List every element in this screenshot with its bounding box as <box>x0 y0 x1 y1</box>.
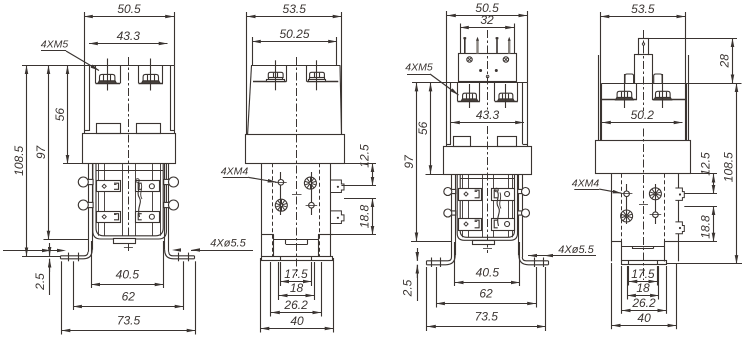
view1 center line <box>128 57 130 254</box>
view3 dot right <box>495 69 498 72</box>
view1 dim 62 <box>73 306 183 308</box>
view4 flange band <box>596 141 691 174</box>
view3 body top <box>447 82 527 84</box>
view2 nut 1 <box>267 72 285 81</box>
view4 dim 26.2 <box>622 310 666 312</box>
view1 terminal centerline 1 <box>107 59 109 91</box>
view3 dim 56 <box>430 83 432 174</box>
view4 top post thin <box>639 39 649 55</box>
view3 ext top-left <box>412 82 447 84</box>
view2 screw cross small TL <box>275 180 287 186</box>
view4 ext 40 <box>611 263 613 329</box>
svg-text:32: 32 <box>480 13 494 27</box>
view4 ext 18 <box>627 266 629 300</box>
view4 ext 28 bottom <box>686 83 741 85</box>
view4 foot step left <box>611 241 621 243</box>
view1 dim 73.5 <box>62 330 196 332</box>
view4 bottom plate <box>622 261 667 265</box>
svg-text:17.5: 17.5 <box>284 267 308 281</box>
view2 ext 53.5 <box>246 12 248 134</box>
view1 ext 62 <box>73 261 75 310</box>
view4 dim 40 <box>612 325 677 327</box>
view1 side screw TR <box>164 177 179 187</box>
svg-text:53.5: 53.5 <box>283 2 307 16</box>
svg-text:40: 40 <box>637 311 651 325</box>
view3 center line <box>487 30 489 110</box>
svg-text:17.5: 17.5 <box>631 267 655 281</box>
view1 terminal nut 1 <box>98 74 117 83</box>
view4 lug side 1 <box>675 188 684 200</box>
view3 coil lines <box>462 174 464 237</box>
view2 block bottom <box>274 239 318 241</box>
view3 dim 50.5 <box>447 15 527 17</box>
view3 ext 50.5 <box>446 11 448 83</box>
view3 ext band-bottom <box>426 174 444 176</box>
view2 bracket verticals <box>261 163 263 256</box>
view3 pin 3 <box>496 37 498 53</box>
view3 nut 1 <box>461 93 478 101</box>
svg-text:73.5: 73.5 <box>475 310 499 324</box>
view4 knurled screw TR <box>649 188 661 200</box>
view4 block bottom <box>621 246 664 248</box>
view3 side screw TR <box>518 188 530 196</box>
svg-text:26.2: 26.2 <box>283 298 308 312</box>
view2 ext 50.25 <box>252 37 254 65</box>
view3 foot slots right <box>534 258 536 268</box>
view2 leader 4XM4 <box>248 177 277 182</box>
svg-text:28: 28 <box>718 54 732 69</box>
view1 ext 97 <box>44 239 89 241</box>
svg-text:18: 18 <box>290 281 304 295</box>
view4 foot step right <box>664 241 678 243</box>
view4 terminal centerlines <box>624 74 626 108</box>
view2 dim 12.5 <box>372 163 374 185</box>
svg-text:4XM5: 4XM5 <box>405 62 433 74</box>
view3 dim 40.5 <box>455 282 520 284</box>
view3 xscrew right <box>503 57 508 62</box>
view4 screw centerlines <box>626 184 628 224</box>
svg-text:40: 40 <box>290 314 304 328</box>
view4 dim 12.5 <box>713 174 715 194</box>
svg-text:40.5: 40.5 <box>116 268 140 282</box>
view3 pocket 2 <box>494 83 496 102</box>
view1 terminal pocket 2 <box>138 65 140 83</box>
svg-text:62: 62 <box>479 287 493 301</box>
view2 body sides <box>248 65 252 134</box>
view3 lug BR <box>492 219 515 231</box>
view3 lug TL <box>459 189 482 201</box>
view4 dim 108.5 <box>736 83 738 264</box>
view1 bracket right <box>168 164 170 252</box>
svg-text:108.5: 108.5 <box>12 145 26 175</box>
view2 body top <box>251 65 340 67</box>
svg-text:26.2: 26.2 <box>631 296 656 310</box>
view4 leader 4XM4 <box>599 189 621 193</box>
view3 ext 40.5 <box>454 242 456 286</box>
view2 foot step right <box>318 234 333 236</box>
view3 xscrew left <box>467 57 472 62</box>
view2 dim 50.25 <box>252 41 337 43</box>
view3 foot slots left <box>431 258 433 268</box>
svg-text:62: 62 <box>122 290 136 304</box>
view1 dim 40.5 <box>91 284 163 286</box>
view1 ext 108.5 <box>22 256 61 258</box>
view3 connector block <box>459 54 517 82</box>
view4 ext 17.5 <box>628 266 630 286</box>
view4 pocket line <box>602 99 637 101</box>
svg-text:12.5: 12.5 <box>699 152 713 176</box>
view3 side screw BR <box>518 209 530 217</box>
view1 slot leader left <box>3 250 58 252</box>
view1 ext band-bottom <box>63 163 82 165</box>
view1 side screw BR <box>164 200 179 210</box>
view1 body outline <box>84 65 174 67</box>
view2 bottom plate <box>262 257 333 261</box>
view1 lug BL <box>97 212 121 223</box>
view3 side screw BL <box>444 209 456 217</box>
view1 dim 43.3 <box>89 43 168 45</box>
view4 nut 2 <box>654 91 672 100</box>
view1 lug TL <box>97 181 121 192</box>
svg-text:56: 56 <box>416 121 430 135</box>
view4 body top <box>602 83 686 85</box>
view1 dim 108.5 <box>26 65 28 256</box>
svg-text:43.3: 43.3 <box>476 108 500 122</box>
view1 terminal centerline 2 <box>150 59 152 91</box>
view1 flange band <box>83 134 176 164</box>
svg-text:97: 97 <box>402 154 416 169</box>
view4 dim 18 <box>627 295 659 297</box>
view2 ext 17.5 <box>280 262 282 286</box>
view2 dim 40 <box>261 328 334 330</box>
view3 dim 2.5 <box>417 248 419 261</box>
view4 center line <box>643 30 645 111</box>
view4 dim 28 <box>732 38 734 83</box>
view1 bottom tab <box>114 239 136 244</box>
view1 terminal nut 2 <box>142 74 161 83</box>
view4 side post right <box>654 74 662 83</box>
view1 coil lines <box>98 164 100 236</box>
view2 center line <box>296 57 298 276</box>
view1 bracket left <box>88 164 90 252</box>
view3 bracket right <box>522 174 524 257</box>
svg-text:56: 56 <box>53 108 67 122</box>
view3 pin 4 <box>508 41 510 54</box>
view2 screw centerlines <box>280 172 282 215</box>
view4 hidden bracket lines <box>621 174 623 261</box>
view3 bottom tab <box>473 241 495 245</box>
svg-text:40.5: 40.5 <box>476 266 500 280</box>
svg-text:97: 97 <box>34 144 48 159</box>
view3 ext 32 <box>460 24 462 54</box>
view3 bracket left <box>451 174 453 257</box>
view3 dot left <box>479 69 482 72</box>
view4 knurled screw BL <box>621 210 633 222</box>
view3 pin 1 <box>464 37 466 53</box>
view2 block tab <box>285 239 287 244</box>
view1 ext top-left <box>22 65 84 67</box>
view3 center hole <box>486 75 489 78</box>
view1 ext 40.5 <box>91 241 93 288</box>
view1 dim 2.5 <box>49 243 51 256</box>
view3 side screw TL <box>444 188 456 196</box>
view1 lug BR <box>136 212 160 223</box>
view1 foot slots left <box>68 253 70 262</box>
view4 ext 28 top <box>648 38 737 40</box>
view4 dim 18.8 <box>713 206 715 241</box>
view3 body sides <box>446 83 448 147</box>
view1 terminal pocket 1 <box>95 65 97 83</box>
view4 dim 17.5 <box>629 281 658 283</box>
view3 window left <box>454 137 471 147</box>
svg-text:43.3: 43.3 <box>117 29 141 43</box>
view4 top post wide <box>634 54 636 83</box>
view1 dim 50.5 <box>84 16 174 18</box>
view3 yoke frame <box>457 174 517 240</box>
view1 ext 73.5 <box>61 261 63 334</box>
view3 dim 97 <box>416 83 418 242</box>
view1 window right <box>137 124 161 134</box>
svg-text:18.8: 18.8 <box>358 204 372 228</box>
view2 flange band <box>246 135 345 164</box>
view4 ext 18.8 <box>684 206 717 208</box>
view3 ext 97 <box>411 241 452 243</box>
svg-text:108.5: 108.5 <box>722 152 736 182</box>
view3 flange band <box>444 147 532 175</box>
view2 ext 40 <box>260 258 262 333</box>
view3 body inner walls <box>450 83 452 144</box>
svg-text:50.2: 50.2 <box>631 108 655 122</box>
view4 nut 1 <box>616 91 634 100</box>
view2 dim 53.5 <box>247 16 342 18</box>
view4 screw cross small BR <box>650 212 662 218</box>
view4 dim 53.5 <box>601 16 686 18</box>
view3 slot leader right (4X dia5.5) <box>528 255 596 257</box>
view3 leader 4XM5 <box>430 74 459 95</box>
view1 slot leader right (4X dia 5.5) <box>191 250 253 252</box>
view3 dim 32 <box>460 27 514 29</box>
view2 block sides <box>273 235 275 257</box>
view3 nut 2 <box>498 93 515 101</box>
view2 terminal centerlines <box>275 60 277 90</box>
svg-text:4XM5: 4XM5 <box>41 39 69 51</box>
svg-text:4Xø5.5: 4Xø5.5 <box>210 238 246 250</box>
view1 dim 56 <box>67 65 69 163</box>
view2 ext 18.8 <box>344 198 376 200</box>
view4 ext 12.5 <box>691 173 717 175</box>
svg-text:73.5: 73.5 <box>117 314 141 328</box>
view2 ext 18 <box>278 262 280 300</box>
view2 lug side 2 <box>331 211 344 224</box>
view3 terminal centerlines <box>469 84 471 108</box>
svg-text:2.5: 2.5 <box>33 273 47 291</box>
view4 body sides <box>601 83 603 140</box>
view1 moving spring <box>136 179 142 217</box>
view1 lug TR <box>136 181 160 192</box>
view3 lug TR <box>492 189 515 201</box>
view1 side screw TL <box>78 177 93 187</box>
svg-text:2.5: 2.5 <box>401 279 415 297</box>
view1 dim 97 <box>48 65 50 239</box>
view3 pocket 1 <box>457 83 459 102</box>
view4 ext 53.5 <box>600 12 602 140</box>
view3 ext 62 <box>436 267 438 308</box>
view4 plate tabs <box>628 260 630 264</box>
view4 dim 50.2 <box>602 122 683 124</box>
view2 nut 2 <box>309 72 326 81</box>
view3 dim 43.3 <box>451 122 524 124</box>
view3 dim 73.5 <box>427 326 546 328</box>
view2 hidden bracket lines <box>272 163 274 256</box>
view2 ext 12.5 <box>345 163 376 165</box>
svg-text:53.5: 53.5 <box>631 2 655 16</box>
view4 ext 26.2 <box>621 266 623 314</box>
view3 yoke top line <box>460 178 514 180</box>
view2 knurled screw TR <box>304 177 316 189</box>
view2 foot step left <box>261 234 274 236</box>
view2 ext 26.2 <box>270 262 272 317</box>
svg-text:4XM4: 4XM4 <box>221 166 249 178</box>
view4 lug side 2 <box>675 222 684 234</box>
view2 dim 18.8 <box>372 198 374 234</box>
view1 side screw BL <box>78 200 93 210</box>
view3 pin 2 <box>476 41 478 54</box>
svg-text:4XM4: 4XM4 <box>572 177 600 189</box>
view3 dim 62 <box>436 303 536 305</box>
view4 ext 108.5 <box>666 263 742 265</box>
view4 bracket verticals <box>611 174 613 261</box>
svg-text:18: 18 <box>636 281 650 295</box>
view2 dim 26.2 <box>271 312 321 314</box>
view2 dim 17.5 <box>280 281 312 283</box>
view2 knurled screw BL <box>275 199 287 211</box>
view1 foot slots right <box>178 253 180 262</box>
view3 ext 73.5 <box>426 267 428 331</box>
view1 ext lines 50.5 <box>84 12 86 65</box>
view4 side post left <box>625 74 634 83</box>
view4 block tab <box>632 246 634 249</box>
view2 pocket line <box>253 81 286 83</box>
view3 moving spring <box>495 188 501 226</box>
view2 lug side 1 <box>331 180 344 193</box>
svg-text:12.5: 12.5 <box>358 144 372 168</box>
view4 screw cross small TL <box>621 191 633 197</box>
view2 plate tabs <box>280 257 282 261</box>
view2 screw cross small BR <box>306 202 318 208</box>
svg-text:4Xø5.5: 4Xø5.5 <box>558 244 594 256</box>
view1 yoke top line <box>96 170 163 172</box>
svg-text:50.25: 50.25 <box>279 27 309 41</box>
view1 leader 4XM5 <box>66 51 99 71</box>
svg-text:50.5: 50.5 <box>117 2 141 16</box>
svg-text:18.8: 18.8 <box>699 215 713 239</box>
view1 yoke frame <box>93 164 167 239</box>
view3 window right <box>498 137 517 147</box>
view1 window left <box>97 124 121 134</box>
view3 lug BL <box>459 219 482 231</box>
view4 block sides <box>621 241 623 261</box>
view1 body inner walls <box>89 65 91 131</box>
view2 dim 18 <box>279 295 315 297</box>
